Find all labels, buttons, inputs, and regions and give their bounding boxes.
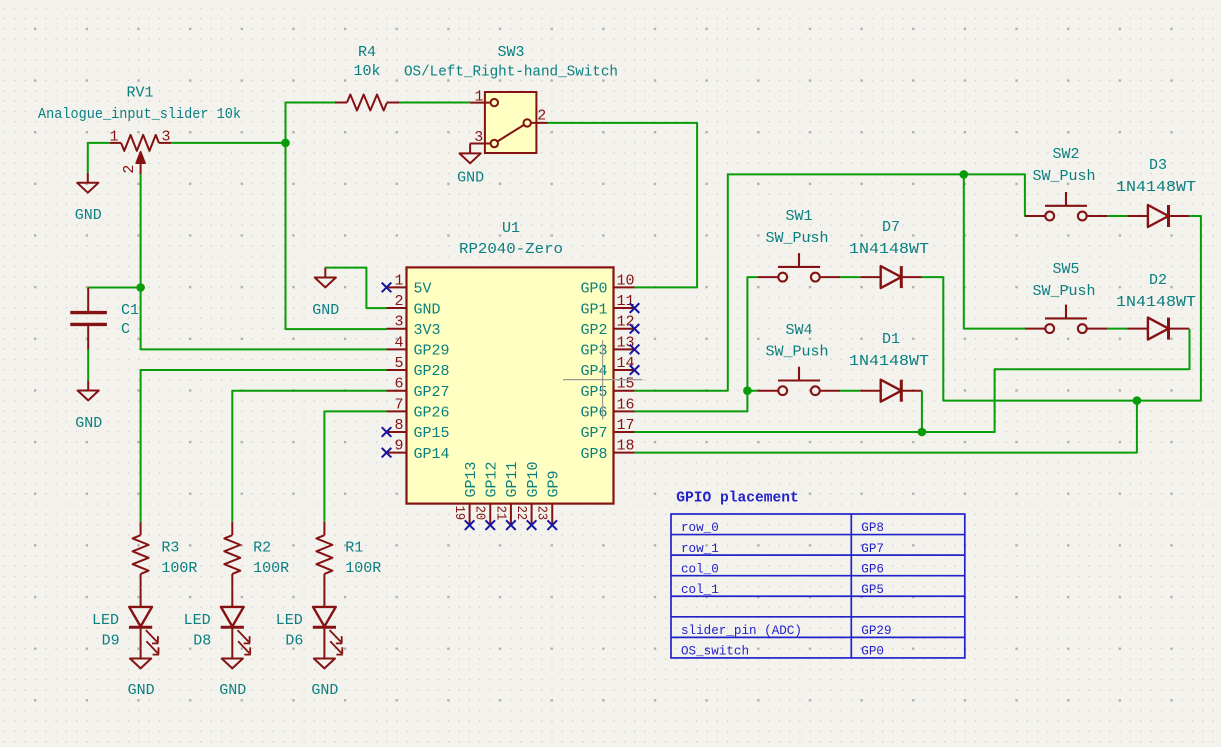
U1 pin 16 (GP6) [580, 396, 634, 421]
svg-text:GP5: GP5 [580, 384, 607, 401]
ground GND at SW3 pin3 [460, 144, 481, 164]
U1 pin 18 (GP8) [580, 438, 634, 463]
svg-text:GP6: GP6 [580, 405, 607, 422]
junction A (RV1.3/R4/3V3) [281, 139, 290, 148]
U1 pin 7 (GP26) [387, 396, 450, 421]
svg-text:SW_Push: SW_Push [765, 230, 828, 247]
svg-text:20: 20 [472, 506, 488, 521]
wire junction D to SW1 [747, 277, 758, 391]
wire SW3 pin2 to U1 GP0 [548, 123, 697, 288]
svg-text:GP4: GP4 [580, 363, 607, 380]
svg-text:D9: D9 [102, 632, 120, 649]
svg-text:5: 5 [394, 355, 403, 372]
svg-text:row_1: row_1 [681, 542, 719, 556]
table row OS_switch [681, 645, 884, 659]
svg-text:GP14: GP14 [414, 446, 450, 463]
svg-text:15: 15 [617, 376, 635, 393]
svg-text:100R: 100R [161, 560, 197, 577]
U1 pin 1 (5V) [382, 272, 432, 297]
U1 pin 12 (GP2) [580, 314, 639, 339]
svg-text:RP2040-Zero: RP2040-Zero [459, 241, 563, 258]
wire U1 GP6 to junction D [635, 391, 759, 412]
lead D6 to ground [323, 628, 325, 649]
svg-text:LED: LED [92, 612, 119, 629]
LED D6 [313, 607, 343, 655]
svg-text:OS_switch: OS_switch [681, 645, 749, 659]
wire C1 to GND [87, 350, 89, 381]
svg-text:SW_Push: SW_Push [1032, 283, 1095, 300]
svg-text:GP8: GP8 [580, 446, 607, 463]
wire SW5 to D2 [1107, 328, 1128, 330]
table row col_1 [681, 583, 884, 597]
svg-text:9: 9 [394, 438, 403, 455]
svg-text:GP0: GP0 [580, 281, 607, 298]
svg-text:GP9: GP9 [545, 470, 562, 497]
wire RV1 pin1 to GND [88, 143, 110, 173]
svg-text:GP6: GP6 [861, 562, 884, 576]
lead D9 to ground [140, 628, 142, 649]
wire junction B to U1 GP29 pin [141, 288, 387, 350]
U1 pin 19 (GP13) [451, 461, 480, 529]
svg-text:U1: U1 [502, 220, 520, 237]
svg-text:GND: GND [311, 682, 338, 699]
U1 pin 6 (GP27) [387, 376, 450, 401]
resistor R4 10k [335, 95, 399, 111]
U1 pin 3 (3V3) [387, 314, 441, 339]
svg-text:GP26: GP26 [414, 405, 450, 422]
wire U1 GP5 to top rail [635, 174, 964, 390]
svg-text:1N4148WT: 1N4148WT [849, 241, 929, 258]
svg-text:R2: R2 [253, 540, 271, 557]
svg-text:col_0: col_0 [681, 562, 719, 576]
U1 pin 4 (GP29) [387, 334, 450, 359]
junction B (wiper/C1/GP29) [136, 283, 145, 292]
svg-text:GP27: GP27 [414, 384, 450, 401]
U1 pin 23 (GP9) [534, 470, 563, 529]
U1 pin 22 (GP10) [513, 461, 542, 529]
wire D7 to row0 rail [922, 277, 1137, 401]
wire SW4 to D1 [840, 390, 860, 392]
svg-text:LED: LED [276, 612, 303, 629]
svg-text:17: 17 [617, 417, 635, 434]
wire R4 to SW3 pin1 [399, 102, 470, 104]
svg-text:GP11: GP11 [504, 461, 521, 497]
junction D (GP6 rail) [743, 386, 752, 395]
svg-text:1: 1 [474, 88, 483, 105]
svg-text:10k: 10k [353, 63, 380, 80]
wire RV1 pin3 to junction A [171, 142, 285, 144]
svg-text:GND: GND [75, 415, 102, 432]
svg-text:GPIO placement: GPIO placement [676, 491, 799, 507]
U1 pin 2 (GND) [387, 293, 441, 318]
U1 pin 20 (GP12) [472, 461, 501, 529]
svg-text:3: 3 [394, 314, 403, 331]
pushbutton SW2 [1025, 192, 1107, 220]
svg-text:10: 10 [617, 272, 635, 289]
junction F (GP7/row_1) [918, 428, 927, 437]
ground GND at U1 pin2 [315, 268, 336, 288]
wire U1 GP7 to junction F and D2 [635, 329, 1190, 432]
svg-text:GP29: GP29 [414, 343, 450, 360]
svg-text:GP7: GP7 [580, 425, 607, 442]
wire D1 down to junction F [921, 391, 923, 432]
svg-text:GP0: GP0 [861, 645, 884, 659]
lead D8 to ground [231, 628, 233, 649]
ground symbol at U1 GND pin [325, 268, 386, 309]
wire D3 to row0 rail [1137, 216, 1201, 401]
svg-text:13: 13 [617, 334, 635, 351]
pushbutton SW4 [758, 367, 840, 395]
svg-text:Analogue_input_slider 10k: Analogue_input_slider 10k [38, 106, 241, 123]
svg-text:D1: D1 [882, 331, 900, 348]
svg-text:GP15: GP15 [414, 425, 450, 442]
diode D7 [860, 266, 922, 288]
svg-text:2: 2 [121, 165, 138, 174]
svg-text:GP10: GP10 [525, 461, 542, 497]
svg-text:8: 8 [394, 417, 403, 434]
U1 pin 11 (GP1) [580, 293, 639, 318]
diode D3 [1128, 205, 1190, 227]
svg-text:5V: 5V [414, 281, 432, 298]
lead R3 to D9 [140, 587, 142, 607]
lead R1 to D6 [323, 587, 325, 607]
svg-text:col_1: col_1 [681, 583, 719, 597]
svg-text:1N4148WT: 1N4148WT [1116, 179, 1196, 196]
resistor R2 [224, 522, 240, 588]
wire SW2 to D3 [1107, 215, 1128, 217]
table GPIO placement grid [671, 514, 965, 658]
svg-text:GP5: GP5 [861, 583, 884, 597]
U1 pin 14 (GP4) [580, 355, 639, 380]
svg-text:D3: D3 [1149, 157, 1167, 174]
lead R2 to D8 [231, 587, 233, 607]
wire U1 to R3 [141, 370, 387, 522]
svg-text:GND: GND [75, 207, 102, 224]
svg-text:3V3: 3V3 [414, 322, 441, 339]
svg-text:100R: 100R [345, 560, 381, 577]
svg-text:C1: C1 [121, 302, 139, 319]
svg-text:SW_Push: SW_Push [1032, 168, 1095, 185]
potentiometer RV1 [110, 135, 171, 174]
svg-text:GP28: GP28 [414, 363, 450, 380]
table row slider_pin (ADC) [681, 624, 892, 638]
wire junction C to SW2 [964, 174, 1025, 216]
svg-text:14: 14 [617, 355, 635, 372]
svg-text:18: 18 [617, 438, 635, 455]
svg-text:2: 2 [537, 108, 546, 125]
svg-text:GP8: GP8 [861, 521, 884, 535]
svg-text:21: 21 [492, 506, 508, 521]
svg-text:3: 3 [161, 129, 170, 146]
svg-text:GND: GND [457, 170, 484, 187]
U1 pin 21 (GP11) [492, 461, 521, 529]
svg-text:12: 12 [617, 314, 635, 331]
svg-text:23: 23 [534, 506, 550, 521]
svg-text:SW4: SW4 [785, 322, 812, 339]
U1 pin 9 (GP14) [382, 438, 450, 463]
svg-text:16: 16 [617, 396, 635, 413]
diode D1 [860, 380, 922, 402]
svg-text:OS/Left_Right-hand_Switch: OS/Left_Right-hand_Switch [404, 64, 618, 81]
svg-text:SW_Push: SW_Push [765, 344, 828, 361]
svg-text:1N4148WT: 1N4148WT [1116, 294, 1196, 311]
svg-text:D6: D6 [285, 632, 303, 649]
wire U1 to R2 [232, 391, 386, 522]
svg-text:4: 4 [394, 334, 403, 351]
wire U1 to R1 [324, 411, 386, 521]
svg-text:GP29: GP29 [861, 624, 891, 638]
svg-text:D8: D8 [193, 632, 211, 649]
ground GND at RV1 pin1 [77, 173, 98, 193]
table row row_0 [681, 521, 884, 535]
ground GND below D6 [314, 649, 335, 669]
U1 pin 8 (GP15) [382, 417, 450, 442]
wire junction B to C1 [88, 287, 140, 289]
table row col_0 [681, 562, 884, 576]
svg-text:GP12: GP12 [483, 461, 500, 497]
svg-text:1: 1 [394, 272, 403, 289]
svg-text:GND: GND [128, 682, 155, 699]
LED D8 [221, 607, 251, 655]
svg-text:D7: D7 [882, 219, 900, 236]
IC U1 RP2040-Zero body [407, 267, 614, 503]
wire SW1 to D7 [840, 276, 860, 278]
svg-text:GND: GND [219, 682, 246, 699]
cursor crosshair [563, 340, 643, 419]
diode D2 [1128, 318, 1190, 340]
svg-text:slider_pin (ADC): slider_pin (ADC) [681, 624, 802, 638]
table row row_1 [681, 542, 884, 556]
U1 pin 13 (GP3) [580, 334, 639, 359]
resistor R1 [316, 522, 332, 588]
svg-text:2: 2 [394, 293, 403, 310]
U1 pin 5 (GP28) [387, 355, 450, 380]
switch SW3 OS/Left_Right-hand_Switch [470, 92, 548, 153]
svg-text:GP7: GP7 [861, 542, 884, 556]
svg-text:100R: 100R [253, 560, 289, 577]
LED D9 [129, 607, 159, 655]
svg-text:11: 11 [617, 293, 635, 310]
svg-text:7: 7 [394, 396, 403, 413]
U1 pin 10 (GP0) [580, 272, 634, 297]
svg-text:SW3: SW3 [497, 44, 524, 61]
svg-text:R4: R4 [358, 44, 376, 61]
wire U1 GP8 to junction E [635, 401, 1137, 453]
capacitor C1 [70, 288, 107, 350]
svg-text:GND: GND [414, 301, 441, 318]
pushbutton SW1 [758, 253, 840, 281]
junction E (GP8/row_0) [1133, 396, 1142, 405]
svg-text:RV1: RV1 [126, 85, 153, 102]
wire junction A down to U1 3V3 pin [286, 143, 387, 329]
ground GND below D8 [222, 649, 243, 669]
svg-text:GP13: GP13 [463, 461, 480, 497]
wire junction C to SW5 [964, 174, 1025, 328]
svg-text:SW5: SW5 [1052, 261, 1079, 278]
wire RV1 wiper to junction B [140, 174, 142, 287]
svg-text:R1: R1 [345, 540, 363, 557]
svg-text:GND: GND [312, 302, 339, 319]
resistor R3 [133, 522, 149, 588]
svg-text:19: 19 [451, 506, 467, 521]
svg-text:C: C [121, 321, 130, 338]
svg-text:1N4148WT: 1N4148WT [849, 353, 929, 370]
U1 pin 15 (GP5) [580, 376, 634, 401]
svg-text:GP3: GP3 [580, 343, 607, 360]
ground GND below D9 [130, 649, 151, 669]
svg-text:GP1: GP1 [580, 301, 607, 318]
svg-text:R3: R3 [161, 540, 179, 557]
U1 pin 17 (GP7) [580, 417, 634, 442]
svg-text:row_0: row_0 [681, 521, 719, 535]
ground GND below C1 [78, 381, 99, 401]
svg-text:3: 3 [474, 129, 483, 146]
svg-text:D2: D2 [1149, 272, 1167, 289]
pushbutton SW5 [1025, 305, 1107, 333]
svg-text:1: 1 [109, 129, 118, 146]
junction C (GP5 rail) [960, 170, 969, 179]
svg-text:SW2: SW2 [1052, 146, 1079, 163]
svg-text:LED: LED [184, 612, 211, 629]
svg-text:SW1: SW1 [785, 208, 812, 225]
svg-text:GP2: GP2 [580, 322, 607, 339]
svg-text:22: 22 [513, 506, 529, 521]
svg-text:6: 6 [394, 376, 403, 393]
wire junction A up to R4 [286, 103, 336, 143]
